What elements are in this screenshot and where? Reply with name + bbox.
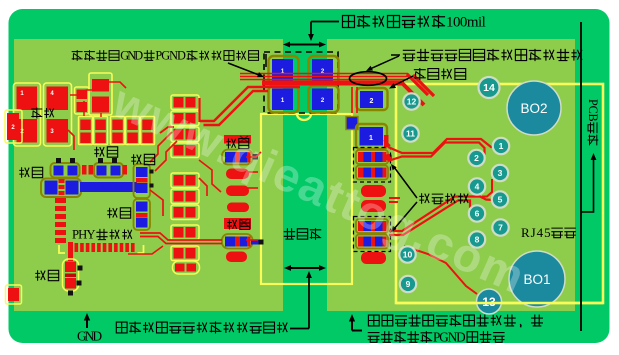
svg-text:5: 5	[498, 195, 503, 205]
svg-text:1: 1	[369, 135, 373, 142]
svg-text:12: 12	[407, 97, 417, 107]
svg-text:14: 14	[483, 82, 495, 94]
svg-text:2: 2	[474, 153, 479, 163]
svg-text:9: 9	[406, 279, 411, 289]
svg-text:GND: GND	[77, 329, 102, 344]
svg-text:4: 4	[475, 182, 480, 192]
svg-text:RJ45: RJ45	[521, 225, 551, 240]
svg-text:GND: GND	[120, 49, 143, 63]
svg-text:1: 1	[499, 141, 504, 151]
svg-text:PGND: PGND	[433, 329, 466, 344]
svg-text:BO1: BO1	[523, 272, 550, 287]
svg-text:2: 2	[370, 98, 374, 105]
svg-text:PCB: PCB	[586, 99, 600, 122]
svg-text:100mil: 100mil	[446, 14, 486, 30]
svg-text:BO2: BO2	[520, 101, 547, 116]
svg-text:11: 11	[406, 129, 415, 139]
svg-text:7: 7	[498, 223, 503, 233]
svg-text:PGND: PGND	[155, 49, 186, 63]
svg-text:3: 3	[498, 168, 503, 178]
svg-text:PHY: PHY	[72, 228, 96, 242]
svg-text:6: 6	[475, 209, 480, 219]
